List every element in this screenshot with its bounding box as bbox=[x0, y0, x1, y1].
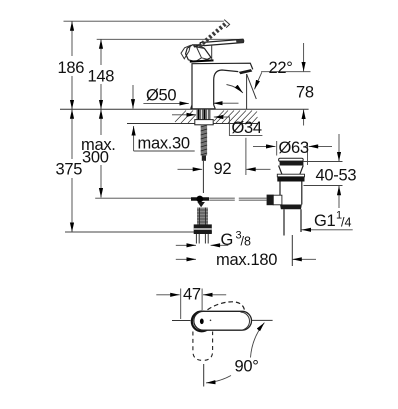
O34 leader arrow left bbox=[172, 114, 196, 116]
waste plug rim bbox=[279, 158, 304, 161]
dim 148 vertical line bbox=[100, 39, 102, 65]
90deg arc upper bbox=[251, 323, 265, 358]
G1 1/4 leader bbox=[302, 229, 353, 231]
T-node ball bbox=[196, 196, 203, 203]
triangle below node bbox=[197, 202, 205, 207]
countertop top line bbox=[60, 108, 309, 110]
dim max300 vertical line bbox=[100, 109, 102, 135]
svg-text:/4: /4 bbox=[341, 216, 351, 230]
waste plug dark band bbox=[280, 161, 304, 166]
svg-text:G1: G1 bbox=[314, 212, 336, 230]
pull rod centerline bbox=[202, 161, 204, 193]
dashed rotated lever (down) bbox=[193, 332, 213, 361]
47 ext lines bbox=[180, 289, 182, 320]
faucet base bottom bbox=[191, 108, 216, 110]
label 22deg underline bbox=[261, 71, 310, 73]
svg-text:/8: /8 bbox=[241, 235, 251, 249]
svg-text:max.180: max.180 bbox=[216, 251, 277, 269]
mounting washer bbox=[195, 120, 213, 125]
small mark bbox=[210, 320, 212, 322]
boss knurled knob bbox=[267, 195, 274, 206]
svg-text:92: 92 bbox=[214, 160, 232, 178]
angle arc left arrow bbox=[227, 85, 243, 93]
svg-text:40-53: 40-53 bbox=[316, 167, 357, 185]
line right of pill bbox=[252, 319, 273, 321]
dim max180 left bbox=[176, 258, 196, 260]
drop arrow at counter bbox=[132, 85, 134, 109]
svg-text:Ø34: Ø34 bbox=[232, 119, 262, 137]
G3/8 arrows bbox=[176, 244, 196, 246]
stud dark tip bbox=[202, 156, 206, 161]
dim 186 vertical line bbox=[71, 21, 73, 56]
tailpipe centerline bbox=[291, 235, 293, 266]
dim 92 left bbox=[178, 168, 203, 170]
pivot dot bbox=[200, 319, 204, 325]
countertop hatch right bbox=[214, 111, 258, 124]
svg-text:375: 375 bbox=[56, 161, 83, 179]
handle knob left facet bbox=[181, 45, 190, 58]
dim O63 left bbox=[253, 145, 276, 147]
handle skirt edge bbox=[211, 46, 213, 61]
faucet body outline bbox=[191, 63, 253, 109]
dim 375 vertical line bbox=[71, 109, 73, 159]
waste plug taper bbox=[279, 166, 304, 175]
dim 78 bottom arrow bbox=[303, 110, 305, 126]
waste taper dark band bbox=[280, 205, 302, 210]
waste seal black band bbox=[277, 177, 304, 182]
dim 78 top arrow bbox=[303, 43, 305, 71]
dashed raised lever bbox=[199, 23, 227, 47]
waste body bbox=[280, 182, 302, 205]
spout axis vertical line bbox=[246, 74, 248, 109]
tailpipe bbox=[284, 209, 301, 235]
O34 box bbox=[229, 116, 262, 135]
O34 leader arrow right bbox=[214, 116, 230, 118]
dashed lifted lever (top view) bbox=[208, 302, 245, 310]
knob bottom shadow bbox=[190, 60, 214, 61]
countertop hatch left bbox=[175, 111, 196, 124]
knob clamp mark bbox=[193, 45, 201, 48]
40-53 arrow bottom bbox=[338, 186, 340, 208]
max30 box arrow bbox=[133, 126, 135, 151]
40-53 arrow top bbox=[338, 134, 340, 161]
lever arm bbox=[200, 39, 243, 45]
max30 underline bbox=[134, 150, 195, 152]
centerline below bbox=[203, 364, 205, 387]
ref line hose end (375 bottom) bbox=[65, 231, 212, 233]
40-53 tick top bbox=[304, 161, 343, 163]
valve flange bbox=[194, 224, 212, 234]
T-node bar bbox=[191, 197, 209, 200]
top view body circle bbox=[192, 312, 212, 332]
O63 ext lines bbox=[276, 141, 278, 156]
dim O63 right bbox=[309, 145, 332, 147]
spout flow slant line bbox=[247, 74, 257, 99]
ext line for 92 bbox=[245, 138, 247, 175]
90deg arc lower bbox=[206, 376, 231, 383]
40-53 tick bottom bbox=[304, 185, 343, 187]
pull rod horizontal bbox=[209, 198, 266, 200]
handle knob bbox=[186, 45, 211, 62]
extension line lever tip level bbox=[97, 38, 244, 40]
svg-text:22°: 22° bbox=[269, 59, 293, 77]
svg-text:47: 47 bbox=[183, 286, 201, 304]
svg-text:300: 300 bbox=[82, 149, 109, 167]
dim O50 line left bbox=[143, 102, 188, 104]
svg-text:Ø50: Ø50 bbox=[146, 87, 176, 105]
aerator bbox=[239, 69, 253, 74]
ref line rod end (max300 bottom) bbox=[95, 197, 196, 199]
hoses bbox=[196, 234, 208, 244]
47 tick at lever end bbox=[172, 320, 191, 322]
extension line top (dashed-handle tip level) bbox=[64, 20, 224, 22]
angle arc right arrow bbox=[255, 72, 262, 89]
svg-text:148: 148 bbox=[88, 68, 115, 86]
dim O50 line right bbox=[213, 102, 239, 104]
side boss bbox=[273, 195, 282, 205]
svg-text:78: 78 bbox=[296, 84, 314, 102]
dim 92 right bbox=[246, 168, 270, 170]
svg-text:G: G bbox=[221, 231, 234, 249]
svg-text:90°: 90° bbox=[235, 358, 259, 376]
svg-text:186: 186 bbox=[58, 59, 85, 77]
knob facet lines bbox=[193, 45, 208, 61]
countertop bottom line bbox=[127, 123, 258, 125]
svg-text:max.30: max.30 bbox=[138, 135, 190, 153]
svg-text:Ø63: Ø63 bbox=[279, 139, 309, 157]
dim max180 right bbox=[292, 258, 316, 260]
top view: dim 47 bbox=[156, 294, 179, 296]
waste flange white band bbox=[277, 174, 304, 177]
shank through counter bbox=[197, 110, 211, 120]
top view lever pill bbox=[194, 311, 252, 330]
threaded stud bbox=[201, 125, 207, 156]
pill inner cap arc bbox=[241, 312, 250, 330]
check valve body bbox=[197, 208, 208, 225]
